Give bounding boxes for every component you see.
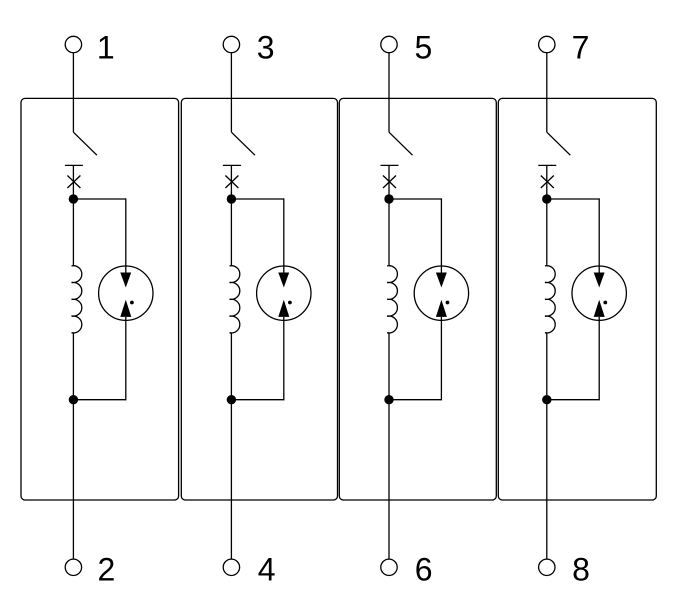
gas discharge tube lower electrode (up arrow)	[594, 300, 605, 317]
wire: arrester branch to bottom node (horizontal)	[231, 399, 283, 401]
junction node (top)	[542, 194, 551, 203]
gas filling dot	[446, 301, 450, 305]
inductor coil	[545, 266, 555, 333]
inductor coil	[387, 266, 397, 333]
disconnector switch blade	[73, 132, 97, 155]
switch fixed contact bar	[65, 164, 83, 166]
terminal 4 (bottom circle)	[223, 559, 239, 575]
thermal disconnect indicator X	[225, 176, 238, 189]
disconnector switch blade	[231, 132, 255, 155]
wire: top node to arrester branch (horizontal)	[231, 198, 283, 200]
wire: top node to inductor	[230, 199, 232, 266]
svg-text:1: 1	[97, 29, 115, 65]
wire: terminal 5 to switch	[388, 53, 390, 133]
svg-text:6: 6	[415, 551, 433, 587]
gas discharge tube circle	[257, 266, 311, 320]
wire: gas tube to bottom node (vertical)	[440, 317, 442, 400]
wire: terminal 1 to switch	[72, 53, 74, 133]
gas discharge tube lower electrode (up arrow)	[120, 300, 131, 317]
thermal disconnect indicator X	[541, 176, 554, 189]
gas discharge tube lower electrode (up arrow)	[436, 300, 447, 317]
wire: top node to inductor	[546, 199, 548, 266]
junction node (top)	[227, 194, 236, 203]
junction node (bottom)	[384, 395, 393, 404]
wire: gas tube to bottom node (vertical)	[598, 317, 600, 400]
inductor coil	[230, 266, 240, 333]
wire: arrester branch vertical (down to gas tube)	[283, 198, 285, 273]
svg-text:2: 2	[98, 551, 116, 587]
wire: top node to arrester branch (horizontal)	[73, 198, 125, 200]
gas filling dot	[603, 301, 607, 305]
junction node (top)	[384, 194, 393, 203]
wire: gas tube to bottom node (vertical)	[283, 317, 285, 400]
inductor coil	[72, 266, 82, 333]
wire: arrester branch vertical (down to gas tube)	[440, 198, 442, 273]
gas filling dot	[288, 301, 292, 305]
wire: arrester branch vertical (down to gas tube)	[125, 198, 127, 273]
svg-text:4: 4	[258, 551, 276, 587]
terminal 2 (bottom circle)	[65, 559, 81, 575]
wire: top node to inductor	[388, 199, 390, 266]
module 3 enclosure box	[339, 98, 496, 500]
gas discharge tube upper electrode (down arrow)	[120, 273, 131, 288]
wire: inductor to terminal 8	[546, 333, 548, 559]
disconnector switch blade	[389, 132, 413, 155]
disconnector switch blade	[547, 132, 571, 155]
junction node (bottom)	[227, 395, 236, 404]
gas discharge tube upper electrode (down arrow)	[594, 273, 605, 288]
wire: inductor to terminal 2	[72, 333, 74, 559]
wire: contact bar to top node	[72, 165, 74, 199]
wire: contact bar to top node	[230, 165, 232, 199]
svg-text:5: 5	[415, 29, 433, 65]
gas filling dot	[130, 301, 134, 305]
svg-text:7: 7	[572, 29, 590, 65]
wire: arrester branch vertical (down to gas tube)	[598, 198, 600, 273]
wire: top node to arrester branch (horizontal)	[547, 198, 599, 200]
thermal disconnect indicator X	[383, 176, 396, 189]
wire: contact bar to top node	[546, 165, 548, 199]
junction node (bottom)	[542, 395, 551, 404]
module 1 enclosure box	[21, 98, 179, 500]
wire: arrester branch to bottom node (horizontal)	[389, 399, 441, 401]
svg-text:8: 8	[572, 551, 590, 587]
switch fixed contact bar	[223, 164, 241, 166]
wire: inductor to terminal 6	[388, 333, 390, 559]
wire: top node to arrester branch (horizontal)	[389, 198, 441, 200]
svg-text:3: 3	[257, 29, 275, 65]
wire: inductor to terminal 4	[230, 333, 232, 559]
gas discharge tube upper electrode (down arrow)	[436, 273, 447, 288]
terminal 8 (bottom circle)	[539, 559, 555, 575]
module 2 enclosure box	[181, 98, 337, 500]
junction node (bottom)	[69, 395, 78, 404]
gas discharge tube circle	[572, 266, 626, 320]
terminal 6 (bottom circle)	[381, 559, 397, 575]
wire: gas tube to bottom node (vertical)	[125, 317, 127, 400]
wire: terminal 7 to switch	[546, 53, 548, 133]
wire: arrester branch to bottom node (horizontal)	[547, 399, 599, 401]
switch fixed contact bar	[538, 164, 556, 166]
terminal 7 (top circle)	[539, 36, 555, 52]
wire: top node to inductor	[72, 199, 74, 266]
terminal 3 (top circle)	[223, 36, 239, 52]
thermal disconnect indicator X	[67, 176, 80, 189]
junction node (top)	[69, 194, 78, 203]
wire: terminal 3 to switch	[230, 53, 232, 133]
wire: contact bar to top node	[388, 165, 390, 199]
switch fixed contact bar	[381, 164, 399, 166]
gas discharge tube lower electrode (up arrow)	[278, 300, 289, 317]
terminal 1 (top circle)	[65, 36, 81, 52]
terminal 5 (top circle)	[381, 36, 397, 52]
wire: arrester branch to bottom node (horizontal)	[73, 399, 125, 401]
module 4 enclosure box	[498, 98, 656, 500]
gas discharge tube upper electrode (down arrow)	[278, 273, 289, 288]
gas discharge tube circle	[414, 266, 468, 320]
gas discharge tube circle	[99, 266, 153, 320]
